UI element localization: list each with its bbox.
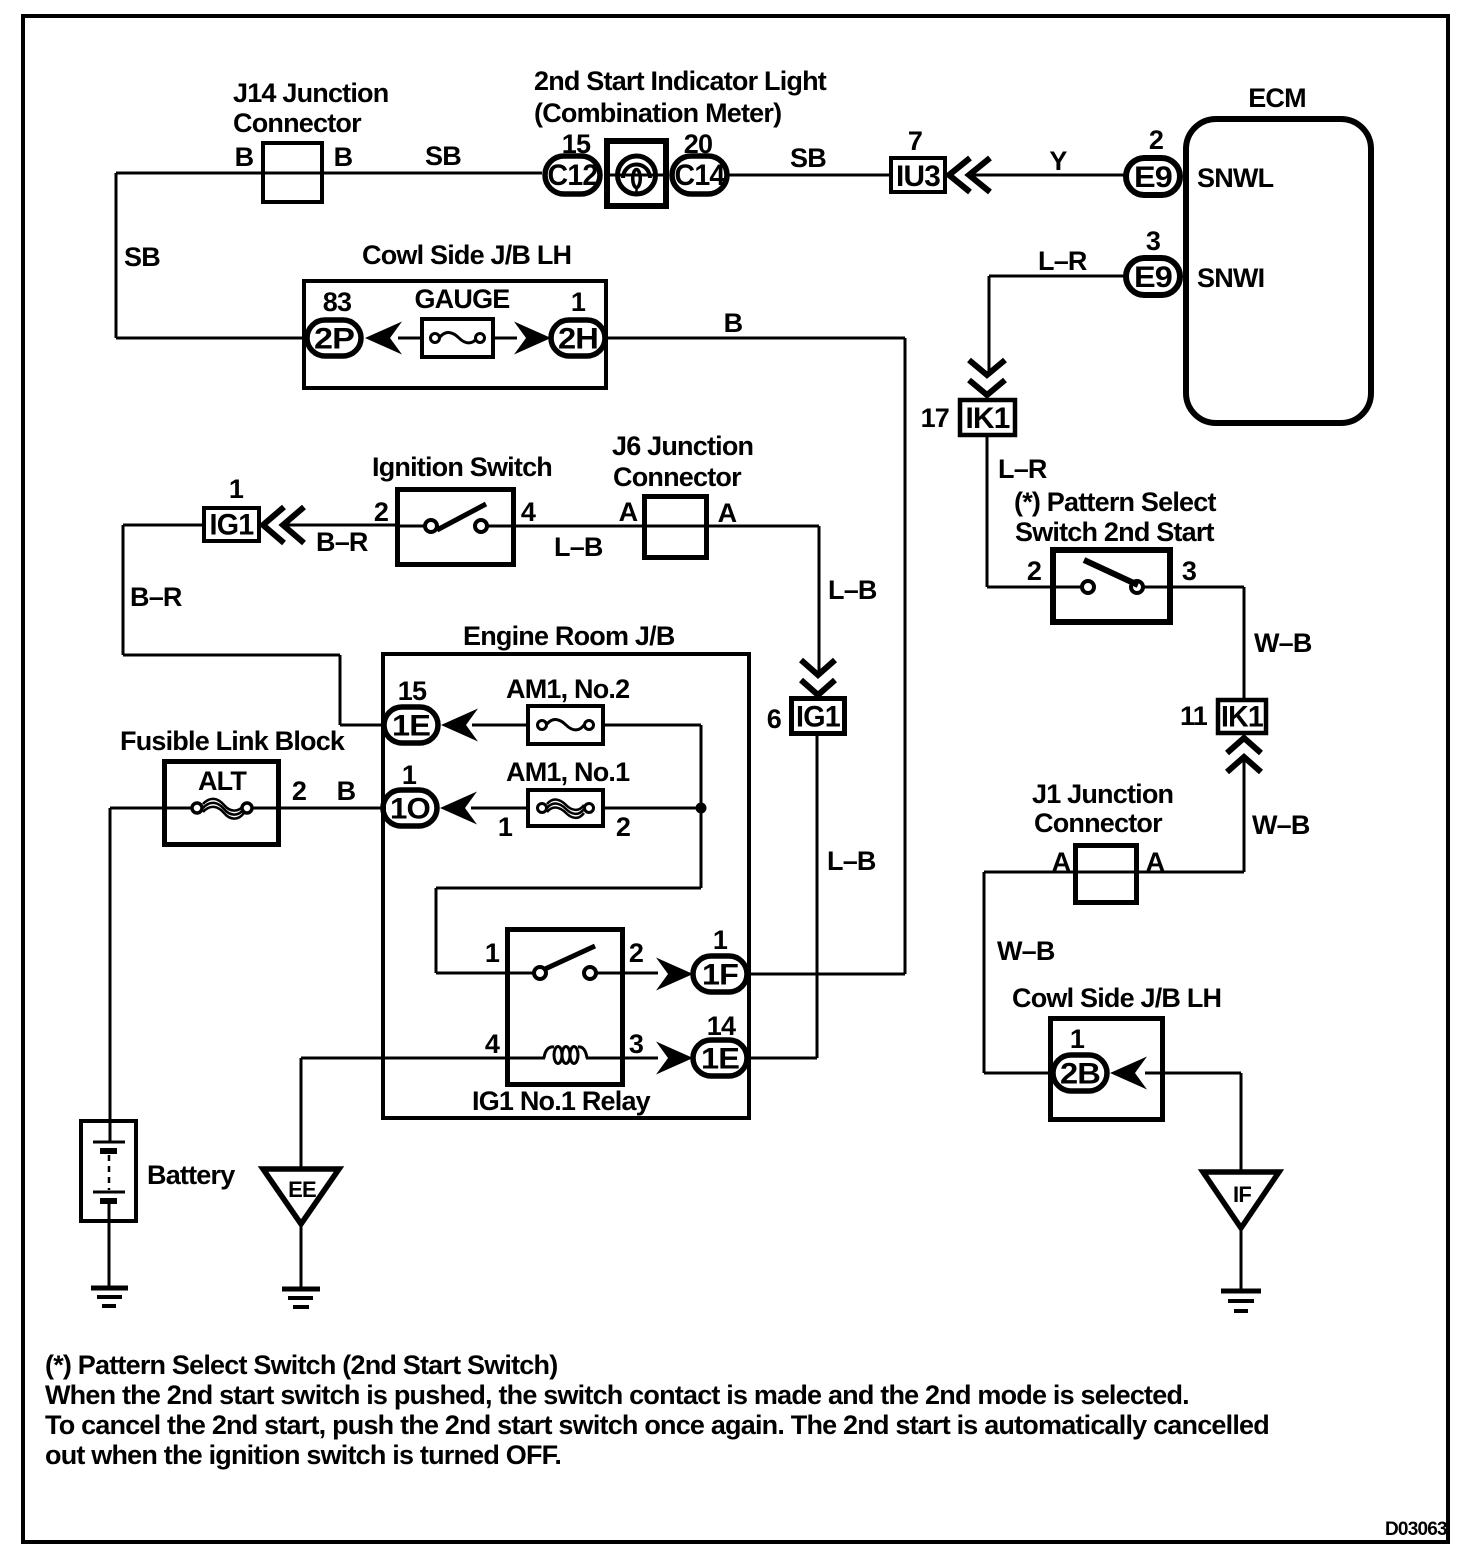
wire 1F to B vertical — [747, 973, 905, 976]
junction dot — [696, 803, 707, 814]
svg-text:Cowl Side J/B LH: Cowl Side J/B LH — [362, 240, 571, 270]
connector IG1 (6) — [792, 699, 845, 734]
connector IG1 (1) — [204, 508, 259, 542]
ground symbol right — [1221, 1291, 1261, 1311]
svg-text:J6 Junction: J6 Junction — [612, 431, 753, 461]
fuse GAUGE — [422, 319, 493, 357]
svg-text:1: 1 — [229, 474, 244, 504]
pin 1E (14) — [693, 1040, 747, 1076]
wire B-R chevrons to ignition switch — [286, 524, 400, 527]
fuse AM1 No.2 — [528, 706, 603, 744]
svg-text:1E: 1E — [392, 710, 430, 743]
svg-text:1: 1 — [571, 287, 586, 317]
svg-text:B: B — [235, 142, 254, 172]
svg-text:W–B: W–B — [1254, 628, 1312, 658]
svg-text:1: 1 — [713, 925, 728, 955]
svg-text:4: 4 — [485, 1029, 500, 1059]
wire arrow to fuse — [398, 337, 424, 340]
svg-text:1: 1 — [485, 938, 500, 968]
wire AM1No1 out to junction dot — [601, 807, 701, 810]
svg-text:J14 Junction: J14 Junction — [233, 78, 388, 108]
svg-text:EE: EE — [288, 1177, 316, 1202]
connector IU3 — [891, 158, 945, 193]
ground symbol EE — [282, 1289, 320, 1307]
svg-text:Connector: Connector — [613, 462, 742, 492]
svg-text:(*) Pattern Select Switch (2nd: (*) Pattern Select Switch (2nd Start Swi… — [45, 1350, 557, 1380]
pin 1E (15) — [384, 707, 438, 743]
chevrons pointing left at IG1 — [263, 507, 304, 543]
wire relay pin3 to 1E(14) — [621, 1057, 658, 1060]
arrow into 1E(15) — [441, 709, 478, 742]
pin C12 — [545, 156, 600, 194]
svg-text:1E: 1E — [701, 1043, 739, 1076]
arrow into 2H — [514, 322, 551, 355]
svg-text:1: 1 — [498, 812, 513, 842]
svg-text:B: B — [724, 308, 743, 338]
svg-text:2nd Start Indicator Light: 2nd Start Indicator Light — [534, 66, 827, 96]
svg-text:ALT: ALT — [198, 766, 247, 796]
arrow into 1E(14) — [656, 1042, 693, 1075]
wire Y from chevrons to E9 pin2 — [972, 174, 1124, 177]
svg-text:B: B — [334, 142, 353, 172]
svg-text:SNWI: SNWI — [1197, 263, 1264, 293]
svg-text:SB: SB — [425, 141, 461, 171]
wire battery to ground — [108, 1221, 111, 1288]
svg-text:Ignition Switch: Ignition Switch — [372, 452, 552, 482]
chevrons pointing down above IG1-6 — [801, 660, 835, 695]
svg-text:Cowl Side J/B LH: Cowl Side J/B LH — [1012, 983, 1221, 1013]
svg-text:2: 2 — [629, 938, 643, 968]
svg-text:L–B: L–B — [828, 575, 877, 605]
chevrons pointing up below IK1-11 — [1227, 738, 1261, 772]
wire B-R from IG1 down-left — [123, 525, 386, 725]
svg-text:D03063: D03063 — [1385, 1519, 1447, 1540]
chevrons pointing down above IK1-17 — [969, 360, 1005, 395]
svg-text:L–B: L–B — [827, 846, 876, 876]
pin 1F — [693, 956, 747, 992]
chevrons at IU3 pointing left — [949, 158, 990, 192]
svg-text:1O: 1O — [390, 793, 430, 826]
fusible link block ALT — [165, 762, 279, 845]
svg-text:3: 3 — [629, 1029, 644, 1059]
svg-text:2: 2 — [1149, 125, 1163, 155]
svg-text:14: 14 — [707, 1011, 736, 1041]
wire EE to ground — [300, 1224, 303, 1289]
ECM box — [1186, 83, 1371, 423]
svg-text:J1 Junction: J1 Junction — [1032, 779, 1173, 809]
svg-text:C14: C14 — [675, 159, 726, 192]
svg-text:1: 1 — [1070, 1024, 1085, 1054]
arrow into 1O — [440, 792, 477, 825]
svg-text:AM1, No.2: AM1, No.2 — [506, 674, 629, 704]
wire L-B below IG1-6 to 1E(14) — [749, 736, 817, 1058]
svg-text:B–R: B–R — [130, 582, 182, 612]
svg-text:A: A — [1146, 847, 1165, 877]
fusible link AM1 No.1 — [528, 790, 603, 826]
svg-text:A: A — [718, 498, 737, 528]
connector IK1 (11) — [1218, 700, 1266, 734]
svg-text:(Combination Meter): (Combination Meter) — [534, 98, 781, 128]
svg-text:11: 11 — [1180, 701, 1208, 731]
svg-text:ECM: ECM — [1248, 83, 1306, 113]
wire ALT to 1O — [279, 807, 386, 810]
svg-text:83: 83 — [323, 287, 352, 317]
svg-text:Fusible Link Block: Fusible Link Block — [120, 726, 346, 756]
wire junction down to relay contact — [436, 888, 701, 973]
svg-text:2: 2 — [292, 776, 306, 806]
svg-text:W–B: W–B — [997, 936, 1055, 966]
wire B from 2H to right vertical — [605, 338, 905, 974]
arrow into 1F — [656, 958, 693, 991]
svg-text:L–R: L–R — [1038, 246, 1087, 276]
svg-text:L–B: L–B — [554, 532, 603, 562]
wire SB from J14 to C12 — [116, 172, 542, 175]
wire L-B from J6 down to IG1-6 — [646, 526, 819, 674]
svg-text:Battery: Battery — [147, 1160, 235, 1190]
connector J14 Junction Connector — [233, 78, 388, 202]
junction block Cowl Side J/B LH (bottom) — [1012, 983, 1221, 1120]
connector IK1 (17) — [960, 400, 1015, 435]
wire ALT to battery — [110, 808, 167, 1121]
pin 2P — [307, 320, 361, 356]
wire W-B from pin3 — [1170, 587, 1244, 700]
ground triangle EE — [263, 1169, 339, 1224]
wire W-B down left of J1 — [984, 872, 1055, 1073]
pin 1O — [383, 790, 437, 826]
wire W-B below chevrons — [984, 760, 1244, 872]
svg-text:Connector: Connector — [233, 108, 362, 138]
svg-text:C12: C12 — [548, 159, 598, 192]
svg-text:2: 2 — [616, 812, 630, 842]
svg-text:SNWL: SNWL — [1197, 163, 1274, 193]
wire relay coil to EE — [301, 1058, 510, 1170]
svg-text:6: 6 — [767, 704, 782, 734]
pin 2B — [1053, 1055, 1107, 1091]
pin E9 (3, SNWI) — [1126, 258, 1180, 295]
svg-text:L–R: L–R — [998, 454, 1047, 484]
ground symbol battery — [91, 1288, 128, 1306]
svg-text:2P: 2P — [314, 323, 354, 356]
wire SB vertical left — [116, 173, 306, 338]
wire from 2B to IF — [1145, 1073, 1241, 1172]
relay IG1 No.1 Relay box — [508, 930, 623, 1085]
wire relay pin2 to 1F — [621, 972, 658, 975]
svg-text:15: 15 — [398, 676, 427, 706]
svg-text:3: 3 — [1182, 556, 1197, 586]
svg-text:2B: 2B — [1060, 1058, 1100, 1091]
svg-text:7: 7 — [908, 126, 922, 156]
svg-text:To cancel the 2nd start, push: To cancel the 2nd start, push the 2nd st… — [45, 1410, 1269, 1440]
svg-text:A: A — [619, 497, 638, 527]
svg-text:IK1: IK1 — [966, 402, 1010, 435]
svg-text:A: A — [1052, 847, 1071, 877]
svg-text:Switch 2nd Start: Switch 2nd Start — [1015, 517, 1215, 547]
svg-text:(*) Pattern Select: (*) Pattern Select — [1014, 487, 1216, 517]
wire IF to ground — [1240, 1228, 1243, 1291]
svg-text:SB: SB — [124, 242, 160, 272]
pin C14 — [672, 156, 727, 194]
svg-text:Y: Y — [1049, 146, 1067, 176]
lamp 2nd Start Indicator Light (Combination Meter) — [534, 66, 827, 206]
svg-text:1: 1 — [402, 760, 417, 790]
wire fuse to arrow — [491, 337, 517, 340]
svg-text:3: 3 — [1146, 226, 1161, 256]
wire L-R below IK1 — [987, 437, 1055, 587]
svg-text:IK1: IK1 — [1221, 701, 1263, 734]
svg-text:E9: E9 — [1134, 261, 1172, 294]
svg-text:IF: IF — [1233, 1182, 1251, 1207]
svg-text:B: B — [337, 776, 356, 806]
wire AM1No2 to junction — [601, 725, 701, 888]
battery — [81, 1121, 136, 1221]
switch (*) Pattern Select Switch 2nd Start — [1014, 487, 1216, 622]
svg-text:1F: 1F — [702, 959, 738, 992]
wire SB from C14 to IU3 — [726, 174, 891, 177]
svg-text:Connector: Connector — [1034, 808, 1163, 838]
ground triangle IF — [1203, 1172, 1279, 1228]
wire L-B ignition to J6 — [513, 525, 646, 528]
pin 2H — [551, 320, 605, 356]
svg-text:out when the ignition switch i: out when the ignition switch is turned O… — [45, 1440, 561, 1470]
svg-text:2: 2 — [374, 497, 388, 527]
switch Ignition Switch — [372, 452, 552, 565]
arrow into 2B — [1110, 1057, 1147, 1090]
svg-text:17: 17 — [921, 403, 949, 433]
svg-text:Engine Room J/B: Engine Room J/B — [463, 621, 675, 651]
svg-text:B–R: B–R — [316, 527, 368, 557]
svg-text:SB: SB — [790, 143, 826, 173]
svg-text:2: 2 — [1027, 556, 1041, 586]
wire arrow to AM1 No.1 — [471, 807, 530, 810]
arrow into 2P — [365, 322, 402, 355]
svg-text:When the 2nd start switch is p: When the 2nd start switch is pushed, the… — [45, 1380, 1189, 1410]
wire L-R from E9 pin3 — [989, 276, 1125, 374]
svg-text:GAUGE: GAUGE — [414, 284, 509, 314]
pin E9 (2, SNWL) — [1126, 158, 1180, 195]
svg-text:AM1, No.1: AM1, No.1 — [506, 757, 630, 787]
wire arrow to AM1 No.2 fuse — [472, 724, 530, 727]
junction block Cowl Side J/B LH — [304, 240, 606, 388]
junction block Engine Room J/B — [383, 621, 749, 1118]
connector J1 Junction Connector — [1032, 779, 1173, 903]
svg-text:2H: 2H — [558, 323, 598, 356]
svg-text:W–B: W–B — [1252, 810, 1310, 840]
svg-text:IG1: IG1 — [210, 509, 254, 542]
svg-text:IG1 No.1 Relay: IG1 No.1 Relay — [472, 1086, 651, 1116]
connector J6 Junction Connector — [612, 431, 753, 558]
svg-text:IU3: IU3 — [896, 160, 940, 193]
svg-text:E9: E9 — [1134, 161, 1172, 194]
svg-text:IG1: IG1 — [796, 701, 840, 734]
svg-text:4: 4 — [521, 497, 536, 527]
